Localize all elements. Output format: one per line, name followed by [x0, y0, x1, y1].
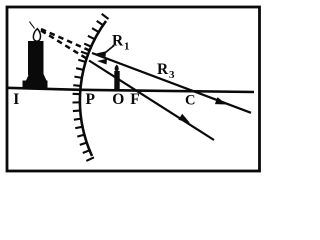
- svg-text:I: I: [13, 91, 19, 108]
- svg-text:R: R: [157, 61, 169, 78]
- svg-text:P: P: [86, 91, 96, 108]
- svg-text:1: 1: [124, 41, 130, 53]
- svg-text:R: R: [112, 33, 124, 50]
- svg-text:3: 3: [169, 69, 175, 81]
- svg-text:C: C: [185, 93, 195, 109]
- svg-text:F: F: [130, 91, 139, 108]
- svg-text:O: O: [112, 91, 124, 108]
